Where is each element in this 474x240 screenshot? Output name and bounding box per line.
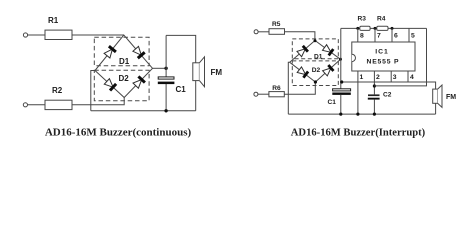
- wire bottom rail (right): [288, 113, 435, 115]
- wire top rail V+: [341, 27, 427, 29]
- node junction dot: [164, 109, 167, 112]
- pin 1 stub to ground rail: [357, 71, 359, 114]
- dual diode D2 dashed box (right): [292, 61, 338, 86]
- wire: [258, 31, 269, 33]
- wire V+/pin3/pin4 line to speaker top: [342, 82, 436, 89]
- wire left vertex to bottom rail (right): [288, 62, 289, 114]
- svg-text:R3: R3: [358, 15, 367, 22]
- wire: [72, 34, 124, 36]
- capacitor C2: [368, 94, 380, 96]
- diode lower-left (right): [297, 67, 306, 75]
- pin 8 stub: [357, 28, 359, 42]
- wire bottom rail: [91, 110, 196, 112]
- bridge diamond wires: [95, 35, 153, 98]
- svg-text:5: 5: [411, 33, 415, 40]
- node dot pin2: [373, 84, 376, 87]
- dual diode D2 dashed box: [94, 70, 149, 101]
- resistor R3: [360, 26, 370, 30]
- diode upper-left: [104, 49, 112, 58]
- wire: [72, 98, 124, 105]
- svg-text:FM: FM: [211, 68, 223, 77]
- wire speaker to bottom rail: [195, 81, 197, 111]
- pin 3 stub: [390, 71, 392, 82]
- terminal T2: [23, 103, 27, 107]
- diode upper-right: [133, 46, 141, 55]
- svg-text:AD16-16M Buzzer(continuous): AD16-16M Buzzer(continuous): [45, 127, 192, 139]
- svg-text:C1: C1: [176, 85, 187, 94]
- node dot pin8: [356, 27, 359, 30]
- diode lower-right: [133, 80, 142, 89]
- pin 7 stub: [374, 28, 376, 42]
- capacitor C1: [158, 77, 174, 79]
- svg-text:R4: R4: [377, 15, 386, 22]
- pin 2 stub: [373, 71, 375, 94]
- node right vertex dot: [339, 58, 342, 61]
- terminal T1: [23, 33, 27, 37]
- IC notch: [352, 54, 356, 61]
- diode upper-right (right): [323, 45, 332, 53]
- svg-text:R5: R5: [272, 21, 281, 28]
- diode upper-left (right): [297, 49, 305, 57]
- speaker FM (right): [433, 89, 438, 103]
- dual diode D1 dashed box (right): [292, 39, 338, 59]
- svg-text:IC1: IC1: [375, 48, 389, 55]
- svg-text:7: 7: [377, 33, 381, 40]
- wire C1 branch: [165, 35, 167, 77]
- wire rail corner to pin2 node: [374, 28, 426, 86]
- svg-text:C2: C2: [383, 91, 392, 98]
- wire left vertex to bottom rail: [91, 71, 95, 111]
- node apex dot (right): [314, 39, 317, 42]
- wire: [28, 104, 46, 106]
- svg-text:D2: D2: [312, 67, 321, 74]
- wire R5 to apex: [285, 32, 315, 41]
- svg-text:FM: FM: [446, 94, 456, 101]
- svg-text:D2: D2: [119, 74, 130, 83]
- wire speaker bottom: [435, 103, 437, 114]
- dual diode D1 dashed box: [94, 37, 149, 65]
- pin 4 stub: [407, 71, 409, 82]
- speaker FM: [193, 63, 200, 81]
- node dot on C1 vertical: [340, 80, 343, 83]
- diode lower-right (right): [323, 68, 331, 76]
- terminal T4: [254, 92, 258, 96]
- svg-text:2: 2: [376, 74, 380, 81]
- wire top loop to speaker: [166, 35, 196, 62]
- svg-text:R1: R1: [48, 16, 59, 25]
- svg-text:D1: D1: [314, 53, 323, 60]
- node junction dot: [339, 113, 342, 116]
- node dot: [373, 113, 376, 116]
- node junction dot: [164, 67, 167, 70]
- terminal T3: [254, 30, 258, 34]
- node dot pin6: [391, 27, 394, 30]
- svg-text:6: 6: [394, 33, 398, 40]
- resistor R2: [45, 100, 72, 109]
- svg-text:3: 3: [393, 74, 397, 81]
- svg-text:R2: R2: [52, 86, 63, 95]
- resistor R5: [269, 29, 285, 35]
- svg-text:AD16-16M Buzzer(Interrupt): AD16-16M Buzzer(Interrupt): [291, 128, 426, 139]
- capacitor C1 (right): [333, 89, 351, 91]
- svg-text:C1: C1: [328, 99, 337, 106]
- node dot: [356, 113, 359, 116]
- wire: [258, 93, 269, 95]
- wire right vertex to C1 node: [153, 67, 167, 69]
- node dot pin7: [374, 27, 377, 30]
- wire: [28, 34, 45, 36]
- resistor R6: [269, 92, 284, 97]
- bridge diamond wires (right): [290, 41, 341, 83]
- svg-text:NE555 P: NE555 P: [367, 59, 400, 66]
- resistor R1: [45, 30, 72, 39]
- resistor R4: [377, 26, 388, 30]
- svg-text:8: 8: [360, 33, 364, 40]
- svg-text:R6: R6: [272, 85, 281, 92]
- diode lower-left: [104, 79, 113, 88]
- op-amp/timer IC1 NE555 body: [352, 42, 415, 71]
- pin 6 stub: [391, 28, 393, 42]
- svg-text:4: 4: [410, 74, 414, 81]
- wire V+ vertical through bridge right vertex: [340, 28, 342, 88]
- svg-text:D1: D1: [119, 57, 130, 66]
- svg-text:1: 1: [360, 74, 364, 81]
- wire R6 to bottom vertex: [284, 82, 315, 94]
- pin 5 stub: [408, 28, 410, 42]
- node bottom vertex dot: [314, 80, 317, 83]
